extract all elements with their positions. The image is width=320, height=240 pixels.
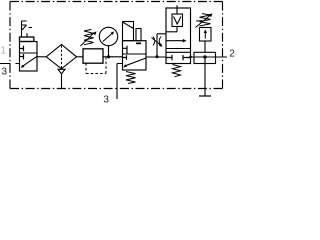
filter drain triangle (58, 69, 65, 74)
valve V2 return spring (126, 72, 136, 84)
valve V3 internal divider upper (166, 48, 191, 50)
valve V3 exhaust stub (176, 5, 178, 14)
junction gauge/rail (107, 55, 110, 58)
wire: valve V2 out (146, 56, 166, 58)
valve V3 return spring (173, 65, 181, 77)
solenoid coil of valve V2 (123, 22, 134, 41)
pressure gauge G1 (99, 27, 117, 57)
svg-text:3: 3 (2, 67, 8, 78)
output rail right (191, 56, 228, 58)
valve V2 blocked port upper (123, 46, 128, 54)
pressure regulator R1 : body (83, 49, 103, 63)
svg-text:1: 1 (1, 46, 7, 57)
svg-text:3: 3 (103, 94, 109, 104)
valve V2 divider (123, 53, 147, 55)
filter / water separator F1 (46, 45, 76, 69)
junction valve V3 / rail (189, 56, 192, 59)
regulator spring (84, 29, 94, 44)
pilot mark (filled bar) (136, 43, 141, 45)
valve V2 body (123, 41, 147, 70)
junction throttle/rail (156, 55, 159, 58)
shut-off valve V1 : body (20, 42, 38, 72)
wire: valve V1 out to filter (37, 56, 46, 58)
regulator pilot line (dashed) (86, 57, 106, 73)
shut-off valve V1 : blocked stub lower (20, 54, 24, 60)
relief branch line (204, 41, 206, 96)
pilot box of valve V2 (136, 29, 141, 41)
svg-text:2: 2 (229, 48, 235, 59)
shut-off valve V1 : position divider (20, 52, 38, 54)
relief valve V4 : adjustment arrow (196, 15, 211, 28)
throttle branch wire (157, 34, 166, 57)
valve V3 internal divider lower (166, 51, 191, 53)
valve V2 blocked port lower (123, 55, 127, 60)
junction relief/rail (203, 55, 206, 58)
valve V3 path to vent (166, 31, 177, 33)
valve V2 exhaust line to port 3 (117, 64, 123, 100)
adjustable throttle D1 (153, 37, 161, 46)
soft-start valve V3 : outer body (166, 8, 191, 64)
relief valve V4 : body (200, 28, 212, 42)
valve V3 vent box (172, 14, 183, 27)
valve V3 lower position blocked ports (166, 55, 191, 60)
assembly boundary frame (dash-dot) (10, 2, 223, 89)
shut-off valve V1 : detent lever actuator (22, 21, 33, 37)
manifold block (194, 52, 216, 63)
exhaust bar (199, 95, 211, 97)
relief valve V4 : internal up arrow (204, 32, 206, 39)
relief valve V4 : spring (200, 14, 211, 26)
valve V2 exhaust diagonal (125, 58, 146, 66)
shut-off valve V1 : exhaust flow diagonal (22, 56, 37, 66)
filter drain line (61, 74, 63, 89)
regulator adjustment arrow (81, 33, 95, 46)
valve V3 flow arrow (166, 40, 184, 42)
shut-off valve V1 : blocked port 1 stub (20, 46, 24, 51)
valve V3 vent box stem (176, 27, 178, 32)
wire: filter to regulator (77, 56, 84, 58)
wire: regulator to solenoid valve (103, 56, 123, 58)
port 3 line (left) (0, 63, 20, 65)
shut-off valve V1 : top tab (20, 37, 34, 42)
